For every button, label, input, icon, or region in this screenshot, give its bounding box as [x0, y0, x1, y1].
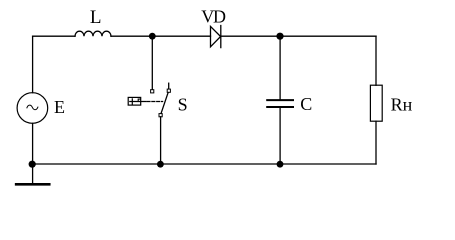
svg-text:Rн: Rн [391, 94, 413, 114]
wire left vertical lower [32, 123, 34, 183]
switch S [151, 83, 171, 117]
node junction L-VD-S [149, 33, 156, 40]
wire top rail right segment [221, 35, 376, 37]
wire right vertical lower [375, 121, 377, 164]
svg-text:S: S [178, 94, 188, 114]
wire switch upper lead [151, 36, 153, 89]
wire top rail middle segment [111, 35, 211, 37]
resistor Rн [370, 85, 382, 121]
svg-text:VD: VD [201, 6, 226, 26]
wire bottom rail [33, 163, 376, 165]
node junction C-bottom [277, 161, 284, 168]
wire top rail left segment [33, 35, 75, 37]
node junction ground [29, 161, 36, 168]
wire left vertical upper [32, 36, 34, 92]
ground [16, 183, 49, 186]
node junction S-bottom [157, 161, 164, 168]
svg-text:E: E [54, 97, 65, 117]
wire switch lower lead [160, 117, 162, 164]
capacitor lower lead [279, 108, 281, 164]
source E [17, 93, 48, 124]
svg-text:L: L [90, 7, 102, 28]
diode VD [211, 26, 221, 48]
capacitor upper lead [279, 36, 281, 99]
switch drive box [128, 97, 146, 105]
svg-text:C: C [300, 94, 312, 114]
switch control dashed link [147, 101, 163, 103]
node junction VD-C [276, 33, 283, 40]
capacitor C [267, 100, 293, 107]
inductor L [75, 31, 111, 36]
wire right vertical upper [375, 36, 377, 85]
